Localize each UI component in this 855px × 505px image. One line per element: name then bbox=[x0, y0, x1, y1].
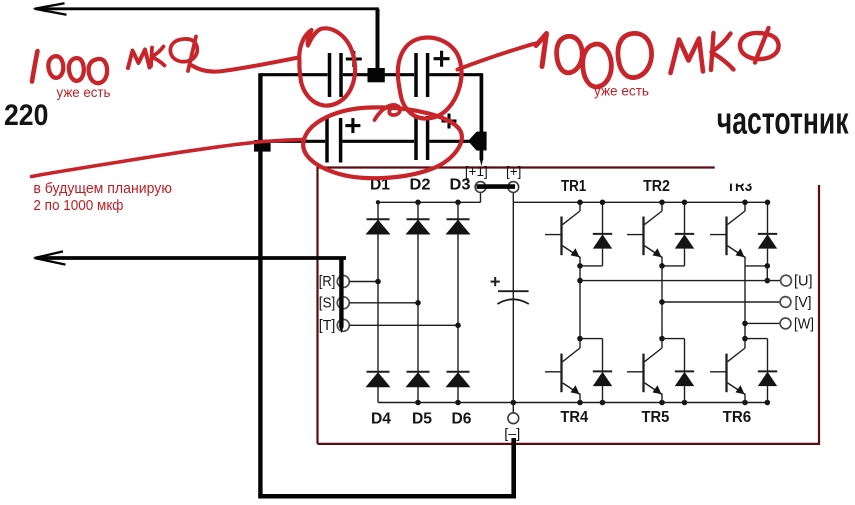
wire: phase vertical TR2-TR5 bbox=[661, 266, 663, 339]
wire: top 220V feed line with arrow bbox=[37, 7, 379, 10]
wire: DC bus capacitor branch bbox=[512, 202, 514, 402]
transistor TR3 bbox=[710, 202, 745, 266]
svg-text:TR4: TR4 bbox=[560, 409, 588, 426]
node: TR2 emitter node bbox=[659, 263, 665, 269]
svg-text:[U]: [U] bbox=[794, 273, 813, 290]
wire: jumper bar between [+1] and [+] bbox=[477, 184, 516, 189]
svg-text:220: 220 bbox=[4, 99, 48, 132]
wire: bottom return bus bbox=[258, 494, 516, 499]
svg-text:частотник: частотник bbox=[717, 101, 849, 143]
wire: phase vertical TR3-TR6 bbox=[744, 266, 746, 339]
svg-text:TR6: TR6 bbox=[723, 409, 752, 426]
wire: TR3 diode-leg drop to U rail bbox=[766, 266, 768, 281]
red long line from lower left to row2 junction bbox=[32, 139, 305, 176]
diode D5 bbox=[407, 371, 430, 373]
wire: collector join of TR6 bbox=[745, 338, 768, 340]
wire: [-] terminal drop bbox=[511, 438, 516, 497]
wire: row2 capacitor bus bbox=[258, 140, 325, 143]
transistor TR2 bbox=[627, 202, 662, 266]
wire: DC+ rail from rectifier to [+1] terminal bbox=[378, 201, 481, 203]
node: collector node of TR6 bbox=[742, 336, 748, 342]
node: solder blob row2 right bbox=[468, 132, 487, 151]
terminal [+1] bbox=[475, 182, 486, 193]
svg-text:[W]: [W] bbox=[794, 316, 814, 333]
diode (freewheel of TR5) bbox=[675, 339, 694, 403]
capacitor C0 (internal DC bus, polarized) bbox=[491, 277, 529, 304]
svg-text:[+]: [+] bbox=[506, 164, 521, 179]
node V bbox=[659, 299, 665, 305]
diode (freewheel of TR4) bbox=[593, 339, 612, 403]
wire: right vertical (caps to [+1]) bbox=[480, 73, 484, 160]
node W bbox=[742, 321, 748, 327]
node: top rail dots at TR2 bbox=[659, 200, 665, 206]
wire: S phase stub bbox=[349, 302, 418, 304]
terminal [V] bbox=[780, 297, 791, 308]
svg-text:[T]: [T] bbox=[319, 318, 336, 334]
diode (freewheel of TR1) bbox=[593, 202, 612, 266]
red circle blob around C1 bbox=[299, 28, 355, 105]
node: top rail dots at TR3 bbox=[742, 200, 748, 206]
wire: 220V second line with arrow bbox=[37, 256, 346, 260]
wire: collector join of TR4 bbox=[580, 338, 603, 340]
red handwriting 1000 МКФ (right) bbox=[536, 28, 779, 87]
svg-text:в будущем планирую: в будущем планирую bbox=[33, 180, 172, 197]
transistor TR5 bbox=[627, 339, 662, 403]
wire: DC- bottom rail bbox=[378, 402, 767, 404]
red circle blob around C3 and C4 bbox=[303, 107, 462, 178]
node: top rail dots at TR1 bbox=[577, 200, 583, 206]
svg-text:[V]: [V] bbox=[795, 294, 812, 311]
svg-text:TR2: TR2 bbox=[643, 178, 670, 195]
svg-text:D5: D5 bbox=[412, 411, 432, 428]
wire: [-] terminal stub bbox=[512, 403, 514, 413]
red handwriting 1000мкФ (left) bbox=[32, 37, 197, 84]
node: collector node of TR5 bbox=[659, 336, 665, 342]
svg-text:D4: D4 bbox=[371, 411, 391, 428]
wire: W output rail bbox=[745, 322, 780, 324]
diode (freewheel of TR6) bbox=[758, 339, 777, 403]
svg-text:D6: D6 bbox=[452, 411, 472, 428]
svg-text:2 по 1000 мкф: 2 по 1000 мкф bbox=[33, 197, 123, 214]
node: TR3 emitter/diode node bbox=[765, 263, 771, 269]
svg-text:D2: D2 bbox=[410, 177, 431, 194]
diode D2 bbox=[407, 218, 430, 220]
node U bbox=[577, 278, 583, 284]
wire: emitter join of TR2 bbox=[662, 265, 685, 267]
wire: emitter join of TR1 bbox=[580, 265, 603, 267]
wire: R phase stub bbox=[349, 281, 378, 283]
capacitor C2 (1000uF row1 right) bbox=[416, 51, 450, 97]
red squiggle on blob3 bbox=[375, 105, 401, 120]
diode D1 bbox=[367, 218, 390, 220]
wire: DC+ rail from [+] terminal across inverter bbox=[513, 201, 767, 203]
terminal [-] bbox=[508, 413, 519, 424]
svg-text:TR5: TR5 bbox=[642, 409, 670, 426]
terminal [R] bbox=[337, 276, 349, 288]
svg-text:[S]: [S] bbox=[319, 295, 336, 311]
wire: row1 capacitor bus bbox=[260, 73, 327, 76]
wire: collector join of TR5 bbox=[662, 338, 685, 340]
wire: rectifier leg 1 (x=378) bbox=[377, 202, 379, 402]
transistor TR6 bbox=[710, 339, 745, 403]
wire: T phase stub bbox=[349, 324, 458, 326]
wire: U output rail bbox=[580, 280, 781, 282]
diode (freewheel of TR3) bbox=[758, 202, 777, 266]
diode D4 bbox=[367, 371, 390, 373]
transistor TR1 bbox=[545, 202, 580, 266]
wire: left vertical bus bbox=[258, 73, 262, 496]
terminal [S] bbox=[337, 297, 349, 309]
wire: phase vertical TR1-TR4 bbox=[579, 266, 581, 339]
svg-text:[+1]: [+1] bbox=[465, 164, 488, 179]
wire: drop from top line to cap junction bbox=[376, 9, 380, 71]
svg-text:[R]: [R] bbox=[319, 274, 336, 290]
wire: rectifier leg 2 (x=418) bbox=[417, 202, 419, 402]
frequency-converter enclosure box bbox=[318, 168, 715, 444]
terminal [W] bbox=[780, 318, 791, 329]
svg-text:уже есть: уже есть bbox=[594, 83, 649, 99]
wire: V output rail bbox=[662, 301, 780, 303]
node: TR1 emitter node bbox=[577, 263, 583, 269]
terminal [T] bbox=[337, 319, 349, 331]
red stroke from мкФ to cap1 circle bbox=[192, 58, 299, 72]
diode D3 bbox=[447, 218, 470, 220]
terminal [+] bbox=[508, 182, 519, 193]
capacitor C4 (planned 1000uF row2 right) bbox=[416, 114, 457, 161]
wire: emitter join of TR3 bbox=[745, 265, 768, 267]
svg-text:уже есть: уже есть bbox=[57, 84, 111, 100]
arrowhead (left, 220 line) bbox=[35, 251, 66, 264]
wire: rectifier leg 3 (x=458) bbox=[457, 202, 459, 402]
svg-text:TR1: TR1 bbox=[561, 178, 586, 195]
capacitor C3 (planned 1000uF row2 left) bbox=[327, 118, 360, 163]
arrowhead (top left) bbox=[35, 3, 67, 15]
wire: drop to [T] terminal bbox=[339, 258, 343, 328]
capacitor C1 (1000uF row1 left) bbox=[330, 51, 362, 97]
node: collector node of TR4 bbox=[577, 336, 583, 342]
terminal [U] bbox=[781, 275, 792, 286]
node: solder blob row2 left bbox=[254, 140, 271, 152]
svg-text:D3: D3 bbox=[450, 177, 471, 194]
node: rail junction dots rectifier top bbox=[376, 200, 380, 204]
node: solder blob row1 bbox=[368, 68, 385, 82]
whiteout patch top-right corner bbox=[715, 139, 821, 184]
diode (freewheel of TR2) bbox=[675, 202, 694, 266]
diode D6 bbox=[447, 371, 470, 373]
transistor TR4 bbox=[545, 339, 580, 403]
red stroke from cap2 circle to right text bbox=[458, 44, 536, 70]
red circle blob around C2 bbox=[398, 38, 462, 119]
